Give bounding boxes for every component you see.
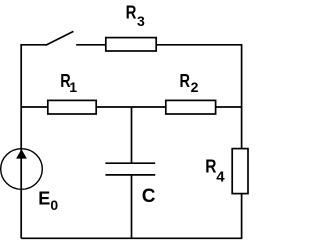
resistor R4: [232, 149, 248, 194]
wire: switch fixed contact to R3: [76, 44, 106, 46]
svg-text:C: C: [142, 186, 156, 207]
wire: top rail, corner to switch hinge: [20, 44, 46, 46]
wire: right vertical rail: [241, 45, 243, 239]
wire: middle rail, right segment: [216, 106, 242, 108]
svg-text:E: E: [38, 188, 50, 208]
svg-text:3: 3: [137, 13, 145, 29]
switch S1 blade: [46, 31, 74, 45]
svg-text:0: 0: [50, 197, 58, 213]
source E0 circle: [1, 149, 43, 190]
svg-text:R: R: [180, 71, 191, 91]
capacitor C top plate: [105, 162, 155, 164]
wire: bottom rail: [21, 237, 242, 239]
svg-text:R: R: [126, 3, 137, 23]
wire: left vertical rail: [20, 45, 22, 239]
resistor R2: [166, 100, 216, 114]
wire: capacitor bottom plate to bottom rail: [131, 175, 133, 238]
resistor R1: [48, 100, 96, 114]
svg-text:1: 1: [69, 79, 77, 95]
resistor R3: [106, 38, 156, 51]
wire: capacitor branch, node B down to top plate: [131, 107, 133, 163]
svg-text:R: R: [205, 157, 216, 177]
wire: R3 to top-right corner: [156, 44, 242, 46]
svg-text:2: 2: [191, 79, 199, 95]
wire: middle rail, node B segment: [96, 106, 166, 108]
wire: middle rail, left segment: [21, 106, 48, 108]
capacitor C bottom plate: [105, 174, 155, 176]
svg-text:4: 4: [216, 169, 225, 186]
source E0 arrow head: [17, 150, 27, 159]
